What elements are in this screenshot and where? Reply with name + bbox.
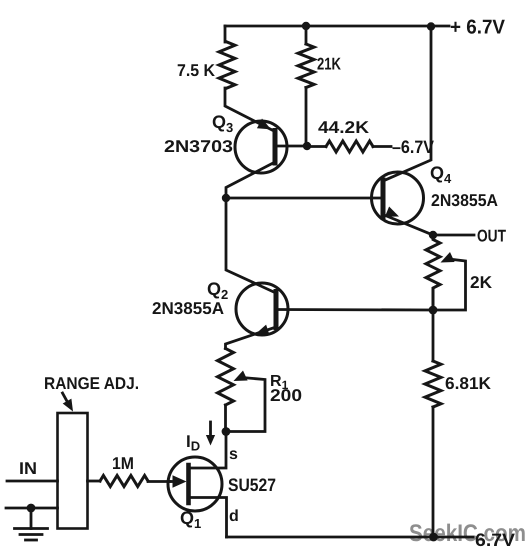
svg-text:7.5 K: 7.5 K [177, 61, 216, 80]
transistor Q3 base bar [273, 131, 278, 164]
svg-text:Q4: Q4 [430, 163, 452, 186]
wire 44.2K left lead [307, 145, 326, 148]
wire R1 bottom lead [224, 405, 227, 432]
wire 1M to Q1 gate [148, 480, 170, 483]
wire Q1 source lead [189, 432, 226, 469]
wire 21K top lead [305, 26, 308, 44]
transistor Q3 collector lead [226, 162, 275, 198]
wire R1 wiper bracket [226, 378, 265, 432]
node OUT junction [429, 231, 437, 239]
svg-text:–6.7V: –6.7V [392, 137, 434, 157]
wire 21K bottom lead to Q3 base node [305, 88, 308, 147]
transistor Q2 emitter arrow [256, 325, 270, 336]
svg-text:2N3855A: 2N3855A [152, 299, 224, 318]
transistor Q1 circle [168, 457, 222, 511]
wire ground stem [30, 508, 33, 529]
wire 6.81K top lead [432, 310, 435, 361]
wire 6.81K bottom lead [432, 407, 435, 537]
arrow RANGE ADJ pointer [63, 393, 74, 412]
svg-text:2K: 2K [470, 273, 493, 292]
potentiometer 2K wiper arrow [441, 252, 455, 263]
node bottom rail junction [429, 533, 438, 542]
svg-text:6.81K: 6.81K [445, 374, 492, 393]
transistor Q4 circle [372, 172, 424, 224]
resistor 44.2K [326, 141, 373, 152]
node Q2 base junction [429, 306, 438, 315]
wire 2K wiper bracket [433, 259, 466, 310]
wire Q1 drain lead [189, 498, 227, 538]
wire Q1 gate lead [168, 480, 174, 483]
wire ground branch [6, 507, 58, 510]
svg-text:ID: ID [186, 432, 200, 454]
transistor Q3 emitter arrow [257, 119, 271, 130]
transistor Q2 circle [236, 283, 288, 335]
transistor Q2 emitter lead [226, 327, 277, 349]
resistor 7.5K [219, 42, 235, 88]
svg-text:44.2K: 44.2K [318, 118, 370, 137]
svg-text:6.7V: 6.7V [475, 530, 515, 550]
node 21K / rail junction [302, 22, 310, 30]
wire Q3 base [275, 145, 307, 148]
potentiometer 2K element [426, 235, 440, 310]
wire Q4 collector to rail [383, 26, 431, 181]
transistor Q4 emitter arrow [385, 207, 399, 217]
transistor Q1 gate arrow [173, 475, 187, 487]
wire 7.5K top lead [224, 26, 227, 42]
wire Q2 base [276, 308, 433, 311]
resistor 6.81K [425, 361, 441, 407]
svg-text:1M: 1M [112, 454, 134, 473]
wire Q4 base from node A [226, 197, 383, 200]
svg-text:Q3: Q3 [212, 112, 233, 135]
transistor Q4 base bar [381, 180, 386, 217]
wire Q2 collector to node A [226, 198, 276, 293]
node Q3 base junction [303, 142, 311, 150]
transistor Q1 channel bar [186, 465, 191, 503]
node Q4 collector / rail junction [427, 22, 435, 30]
potentiometer R1 element [218, 349, 234, 406]
transistor Q3 circle [235, 121, 287, 173]
node ground junction [27, 504, 36, 513]
resistor 1M [100, 476, 148, 487]
potentiometer RANGE ADJ box [58, 413, 88, 529]
arrow ID direction [206, 422, 215, 446]
svg-text:IN: IN [19, 459, 37, 478]
node Q1 source junction [222, 427, 231, 436]
wire -6.7V bottom rail [227, 536, 474, 539]
svg-text:SU527: SU527 [228, 475, 276, 495]
svg-text:RANGE ADJ.: RANGE ADJ. [44, 374, 139, 393]
node A Q3/Q4/Q2 junction [222, 194, 230, 202]
wire OUT [433, 234, 474, 237]
transistor Q2 base bar [274, 292, 279, 328]
svg-text:2N3855A: 2N3855A [431, 191, 498, 210]
resistor 21K [298, 44, 314, 88]
svg-text:s: s [229, 446, 238, 463]
wire IN input [7, 480, 58, 483]
wire +6.7V top rail [225, 25, 449, 28]
wire 44.2K right lead [373, 145, 391, 148]
wire box to 1M [88, 480, 101, 483]
svg-text:200: 200 [270, 386, 302, 405]
wire 7.5K bottom lead to Q3 emitter [225, 88, 275, 132]
svg-text:OUT: OUT [477, 227, 506, 246]
svg-text:2N3703: 2N3703 [164, 137, 233, 156]
ground symbol [15, 529, 48, 541]
svg-text:21K: 21K [317, 55, 342, 74]
svg-text:d: d [229, 508, 239, 525]
svg-text:+ 6.7V: + 6.7V [450, 17, 506, 39]
potentiometer R1 wiper arrow [234, 371, 248, 382]
transistor Q4 emitter lead [383, 215, 433, 236]
